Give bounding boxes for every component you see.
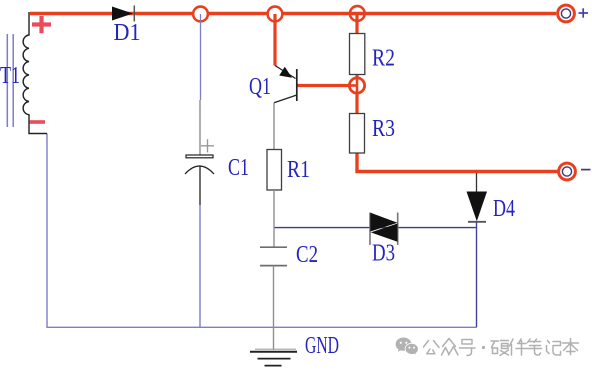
svg-text:C2: C2 bbox=[296, 242, 318, 268]
svg-text:C1: C1 bbox=[228, 155, 249, 181]
svg-text:T1: T1 bbox=[0, 63, 20, 89]
wire R3 bottom to minus terminal (red) bbox=[357, 153, 558, 172]
wire Q1 emitter lead (red) bbox=[273, 14, 276, 66]
wire C2 to D3 to D4 node (navy) bbox=[274, 227, 477, 229]
ground bbox=[250, 333, 339, 366]
wire top rail (red) bbox=[30, 12, 556, 15]
wire C2 bottom lead bbox=[273, 266, 275, 350]
wire R2 top stub (red) bbox=[355, 14, 358, 35]
junction node D at R2 top on rail bbox=[350, 6, 365, 21]
diode D4 bbox=[467, 173, 516, 222]
capacitor C2 bbox=[260, 242, 318, 268]
wire Q1 collector lead bbox=[273, 103, 275, 150]
resistor R1 bbox=[267, 150, 310, 191]
wire C1 top lead bbox=[200, 14, 202, 100]
terminal plus output bbox=[558, 5, 588, 22]
junction node C between R2 and R3 bbox=[349, 78, 364, 93]
polarity minus mark (red) bbox=[30, 120, 46, 124]
svg-text:GND: GND bbox=[305, 333, 339, 359]
wire C1 bottom lead bbox=[199, 205, 201, 327]
capacitor C1 bbox=[185, 139, 249, 205]
svg-text:Q1: Q1 bbox=[249, 74, 271, 100]
svg-text:D4: D4 bbox=[493, 196, 515, 222]
svg-text:D3: D3 bbox=[372, 241, 395, 267]
junction node B on top rail bbox=[268, 7, 283, 22]
svg-text:D1: D1 bbox=[114, 20, 141, 46]
transformer T1 bbox=[0, 12, 47, 134]
polarity plus mark (red) bbox=[32, 16, 51, 33]
transistor Q1 bbox=[249, 66, 297, 103]
svg-text:R3: R3 bbox=[372, 116, 395, 142]
watermark logo bbox=[396, 338, 419, 356]
wire left return loop (blue) bbox=[47, 134, 477, 328]
diode D3 (bidirectional) bbox=[370, 213, 398, 267]
wire D4 cathode down bbox=[476, 222, 478, 327]
diode D1 bbox=[112, 6, 141, 47]
watermark text (stylized) bbox=[424, 339, 579, 356]
resistor R3 bbox=[350, 114, 396, 154]
svg-text:R1: R1 bbox=[287, 157, 310, 183]
junction node A on top rail bbox=[193, 7, 208, 22]
terminal minus output bbox=[559, 163, 591, 180]
svg-text:R2: R2 bbox=[372, 46, 395, 72]
resistor R2 bbox=[350, 34, 396, 75]
wire R2-R3 vertical (red) bbox=[355, 74, 358, 114]
wire R1 bottom lead bbox=[273, 190, 275, 247]
wire Q1 base to junction (red) bbox=[297, 84, 350, 87]
